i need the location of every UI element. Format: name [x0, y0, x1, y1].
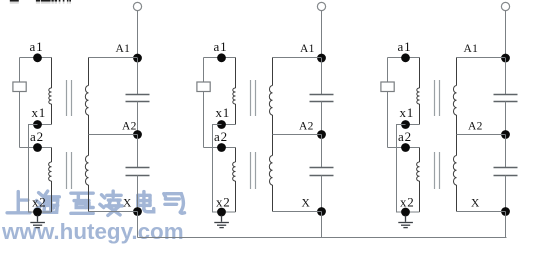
wire winding P1 to x1 — [235, 104, 237, 125]
core lines lower — [66, 152, 68, 189]
secondary winding S1 (A1-A2) — [269, 85, 272, 115]
wire x1 horizontal — [222, 124, 236, 126]
wire winding S1 to S2 — [88, 115, 90, 156]
wire x1 to x2 step — [397, 125, 406, 213]
wire A1 to winding S1 — [272, 58, 274, 86]
svg-text:a2: a2 — [214, 129, 228, 144]
svg-text:x2: x2 — [32, 195, 47, 210]
node x1 — [217, 120, 226, 129]
node x2 — [401, 208, 410, 217]
wire a1 to winding P1 — [419, 58, 421, 89]
ground at x2 — [214, 216, 229, 228]
svg-text:a1: a1 — [214, 39, 228, 54]
wire winding P1 to x1 — [419, 104, 421, 125]
node A1 — [133, 54, 142, 63]
neutral bus wire (X terminals common) — [138, 237, 507, 239]
capacitor C2 (A2-X) — [494, 167, 518, 169]
svg-text:a1: a1 — [30, 39, 44, 54]
ground at x2 — [398, 216, 413, 228]
HV terminal circle block 3 — [501, 2, 509, 10]
wire A1 to winding S1 — [88, 58, 90, 86]
wire terminal to A1 — [137, 11, 139, 58]
wire C1 to A2 — [505, 102, 507, 135]
wire X to secondary winding — [89, 211, 138, 213]
wire a2 horizontal — [388, 147, 420, 149]
svg-text:a2: a2 — [30, 129, 44, 144]
wire winding P1 to x1 — [51, 104, 53, 125]
svg-text:x2: x2 — [216, 195, 231, 210]
wire x2 horizontal — [38, 211, 52, 213]
svg-text:x2: x2 — [400, 195, 415, 210]
primary winding P2 (a2-x2) — [417, 162, 420, 181]
wire winding S2 to X — [272, 185, 274, 212]
svg-text:A2: A2 — [468, 121, 483, 133]
secondary winding S2 (A2-X) — [85, 156, 88, 186]
wire X to secondary winding — [273, 211, 322, 213]
svg-text:A2: A2 — [299, 121, 314, 133]
node x1 — [401, 120, 410, 129]
node x2 — [33, 208, 42, 217]
node a2 — [33, 143, 42, 152]
capacitor C2 (A2-X) — [310, 167, 334, 169]
wire x1 horizontal — [38, 124, 52, 126]
wire A1 to secondary winding — [457, 57, 506, 59]
svg-text:a2: a2 — [398, 129, 412, 144]
node A2 — [501, 130, 510, 139]
wire terminal to A1 — [321, 11, 323, 58]
secondary winding S2 (A2-X) — [453, 156, 456, 186]
wire left branch upper — [203, 58, 205, 83]
wire X to neutral bus — [321, 212, 323, 238]
wire A2 to C2 — [321, 135, 323, 168]
wire X to neutral bus — [137, 212, 139, 238]
wire left branch lower — [19, 92, 21, 148]
wire left branch upper — [387, 58, 389, 83]
node X — [501, 207, 510, 216]
HV terminal circle block 2 — [317, 2, 325, 10]
svg-text:x1: x1 — [216, 105, 231, 120]
node X — [133, 207, 142, 216]
wire A1 to C1 — [505, 58, 507, 95]
node a2 — [217, 143, 226, 152]
wire a2 horizontal — [20, 147, 52, 149]
cropped caption text fragments (top edge) — [10, 0, 71, 2]
wire a2 horizontal — [204, 147, 236, 149]
fuse F1 — [13, 82, 26, 92]
svg-text:x1: x1 — [400, 105, 415, 120]
primary winding P2 (a2-x2) — [49, 162, 52, 181]
fuse F3 — [381, 82, 394, 92]
core lines upper — [66, 80, 68, 116]
svg-text:A1: A1 — [300, 43, 315, 55]
wire a1 top — [388, 57, 420, 59]
svg-text:X: X — [471, 198, 480, 210]
wire C2 to X — [321, 176, 323, 212]
wire left branch lower — [203, 92, 205, 148]
node a2 — [401, 143, 410, 152]
wire winding P2 to x2 — [51, 181, 53, 212]
wire A2 to secondary winding — [457, 134, 506, 136]
svg-text:X: X — [302, 198, 311, 210]
node A1 — [501, 54, 510, 63]
wire winding P2 to x2 — [235, 181, 237, 212]
wire a2 to winding P2 — [51, 148, 53, 163]
HV terminal circle block 1 — [133, 2, 141, 10]
wire a1 top — [204, 57, 236, 59]
wire winding S2 to X — [456, 185, 458, 212]
wire A2 to C2 — [137, 135, 139, 168]
primary winding P1 (a1-x1) — [233, 88, 236, 104]
ground at x2 — [30, 216, 45, 228]
primary winding P1 (a1-x1) — [49, 88, 52, 104]
wire A1 to winding S1 — [456, 58, 458, 86]
capacitor C1 (A1-A2) — [310, 94, 334, 96]
node x1 — [33, 120, 42, 129]
node a1 — [33, 53, 42, 62]
core lines upper — [250, 80, 252, 116]
capacitor C1 (A1-A2) — [494, 94, 518, 96]
wire X to neutral bus — [505, 212, 507, 238]
svg-text:A1: A1 — [464, 43, 479, 55]
core lines lower — [250, 152, 252, 189]
wire x2 horizontal — [222, 211, 236, 213]
wire terminal to A1 — [505, 11, 507, 58]
wire a2 to winding P2 — [419, 148, 421, 163]
svg-text:www.hutegy.com: www.hutegy.com — [1, 219, 184, 244]
wire a1 to winding P1 — [235, 58, 237, 89]
node a1 — [217, 53, 226, 62]
wire winding S2 to X — [88, 185, 90, 212]
wire left branch lower — [387, 92, 389, 148]
secondary winding S1 (A1-A2) — [85, 85, 88, 115]
core lines lower — [434, 152, 436, 189]
node x2 — [217, 208, 226, 217]
svg-text:A1: A1 — [116, 43, 131, 55]
wire C2 to X — [505, 176, 507, 212]
wire A1 to secondary winding — [273, 57, 322, 59]
wire x1 to x2 step — [29, 125, 38, 213]
watermark chinese text 上海互凌电气 — [7, 192, 30, 213]
wire x1 to x2 step — [213, 125, 222, 213]
node A2 — [317, 130, 326, 139]
wire winding P2 to x2 — [419, 181, 421, 212]
secondary winding S2 (A2-X) — [269, 156, 272, 186]
wire X to secondary winding — [457, 211, 506, 213]
svg-text:x1: x1 — [32, 105, 47, 120]
secondary winding S1 (A1-A2) — [453, 86, 456, 116]
core lines upper — [434, 80, 436, 116]
wire left branch upper — [19, 58, 21, 83]
capacitor C1 (A1-A2) — [126, 94, 150, 96]
wire A1 to secondary winding — [89, 57, 138, 59]
wire A1 to C1 — [137, 58, 139, 95]
wire a1 to winding P1 — [51, 58, 53, 89]
wire winding S1 to S2 — [456, 115, 458, 156]
svg-text:X: X — [123, 198, 132, 210]
wire A2 to C2 — [505, 135, 507, 168]
wire A2 to secondary winding — [89, 134, 138, 136]
svg-text:A2: A2 — [122, 121, 137, 133]
wire x1 horizontal — [406, 124, 420, 126]
primary winding P1 (a1-x1) — [417, 88, 420, 104]
node a1 — [401, 53, 410, 62]
svg-text:a1: a1 — [398, 39, 412, 54]
node X — [317, 207, 326, 216]
wire A2 to secondary winding — [273, 134, 322, 136]
wire C1 to A2 — [321, 102, 323, 135]
node A2 — [133, 130, 142, 139]
wire C1 to A2 — [137, 102, 139, 135]
wire A1 to C1 — [321, 58, 323, 95]
wire C2 to X — [137, 176, 139, 212]
node A1 — [317, 54, 326, 63]
wire winding S1 to S2 — [272, 115, 274, 156]
primary winding P2 (a2-x2) — [233, 162, 236, 181]
wire x2 horizontal — [406, 211, 420, 213]
capacitor C2 (A2-X) — [126, 167, 150, 169]
fuse F2 — [197, 82, 210, 92]
wire a2 to winding P2 — [235, 148, 237, 163]
wire a1 top — [20, 57, 52, 59]
